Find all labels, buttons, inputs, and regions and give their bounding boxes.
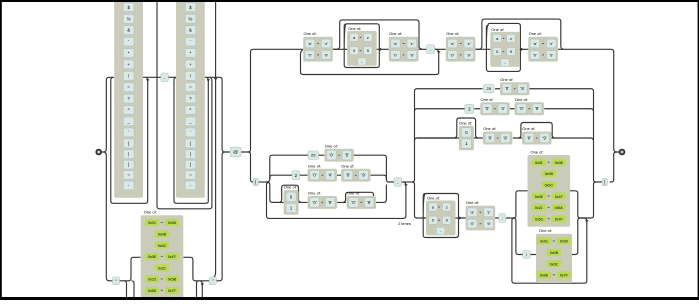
svg-text:.: . bbox=[397, 180, 398, 186]
svg-text:‘0’: ‘0’ bbox=[488, 135, 492, 140]
domain charset g5 a-z 0-9 dash bbox=[490, 27, 520, 67]
svg-text:‘0’: ‘0’ bbox=[470, 221, 474, 226]
wire at-sign to domain fork upper bbox=[241, 49, 303, 152]
wire local-part fork upper (to dot-atom charset) bbox=[103, 77, 114, 152]
svg-text:‘5’: ‘5’ bbox=[345, 153, 349, 158]
svg-text:One of:: One of: bbox=[481, 97, 494, 102]
svg-text:0x0C: 0x0C bbox=[158, 244, 167, 248]
svg-text:One of:: One of: bbox=[325, 143, 338, 148]
svg-text:.: . bbox=[164, 75, 165, 81]
svg-text:0x5D: 0x5D bbox=[148, 289, 157, 293]
wire col2 plus-loop bbox=[174, 77, 208, 203]
svg-text:_: _ bbox=[188, 119, 192, 124]
svg-text:‘4’: ‘4’ bbox=[328, 173, 332, 178]
wire last-octet b3 skip2 arc bbox=[519, 123, 555, 139]
svg-text:‘a’: ‘a’ bbox=[533, 41, 537, 46]
svg-text:]: ] bbox=[604, 180, 605, 185]
svg-text:0x0B: 0x0B bbox=[158, 233, 167, 237]
svg-text:0x7F: 0x7F bbox=[560, 274, 569, 278]
svg-text:0x0C: 0x0C bbox=[545, 184, 554, 188]
wire octet1 b3 internal and merge bbox=[272, 185, 386, 203]
svg-text:%: % bbox=[189, 16, 193, 21]
svg-text:‘z’: ‘z’ bbox=[467, 41, 471, 46]
svg-text:2 times: 2 times bbox=[398, 221, 411, 226]
wire last-octet b2 internals merge bbox=[474, 109, 593, 112]
svg-text:25: 25 bbox=[311, 153, 316, 158]
svg-text:‘9’: ‘9’ bbox=[535, 106, 539, 111]
svg-text:z: z bbox=[510, 36, 512, 41]
svg-text:One of:: One of: bbox=[531, 149, 544, 154]
svg-text:0x5B: 0x5B bbox=[168, 278, 177, 282]
svg-text:‘0’: ‘0’ bbox=[329, 153, 333, 158]
svg-text:|: | bbox=[190, 152, 191, 157]
wire g5 to g6 bbox=[475, 48, 529, 50]
octet1 b2 range 0-9 bbox=[341, 163, 371, 181]
octet2 b2 range 0-4 bbox=[480, 97, 510, 115]
wire b4 backslash branch merge bbox=[530, 218, 580, 255]
svg-text:One of:: One of: bbox=[144, 210, 157, 215]
domain charset g2 a-z 0-9 dash bbox=[347, 26, 377, 66]
wire dot-repeat star-loop bbox=[157, 0, 212, 209]
svg-text:‘z’: ‘z’ bbox=[487, 210, 491, 215]
svg-text:One of:: One of: bbox=[483, 126, 496, 131]
octet2 b1 range 0-5 bbox=[500, 77, 530, 95]
svg-text:0x0E: 0x0E bbox=[535, 195, 544, 199]
svg-text:0x01: 0x01 bbox=[540, 240, 548, 244]
svg-text:0x7F: 0x7F bbox=[555, 217, 564, 221]
svg-text:‘0’: ‘0’ bbox=[312, 200, 316, 205]
octet2 b3 range 0-9 a bbox=[483, 126, 513, 144]
charset column 2 (atext characters) bbox=[176, 0, 205, 198]
b4 hex charset 1 bbox=[528, 149, 571, 226]
wire quoted backslash branch down (cropped) bbox=[124, 281, 127, 300]
svg-text:‘9’: ‘9’ bbox=[361, 173, 365, 178]
wire last-octet fork to b4 bbox=[412, 182, 426, 218]
wire quoted star-loop down (cropped) bbox=[200, 281, 202, 300]
svg-text:0x08: 0x08 bbox=[555, 161, 563, 165]
svg-text:_: _ bbox=[126, 119, 130, 124]
wire octet1 b3 skip2 arc bbox=[343, 192, 376, 202]
wire quoted-string to merge bracket bbox=[216, 152, 225, 281]
svg-text:0x5A: 0x5A bbox=[555, 206, 564, 210]
svg-text:‘0’: ‘0’ bbox=[527, 135, 531, 140]
b4 charset g8 a-z 0-9 bbox=[466, 200, 496, 231]
wire close-bracket to end merge bbox=[610, 152, 617, 182]
b4 hex charset 2 bbox=[536, 228, 572, 283]
wire quoted backslash merge up (cropped) bbox=[197, 281, 200, 300]
svg-text:‘9’: ‘9’ bbox=[549, 52, 553, 57]
svg-text:0x0E: 0x0E bbox=[540, 274, 549, 278]
svg-text:%: % bbox=[127, 16, 131, 21]
start terminal bbox=[96, 150, 101, 155]
wire last-octet fork vertical bbox=[412, 89, 483, 182]
svg-text:0x0B: 0x0B bbox=[550, 251, 559, 255]
wire octet1 fork to b2 bbox=[270, 175, 292, 179]
wire bracket-open to octet fork bbox=[258, 181, 266, 183]
wire b4 plus-loop bbox=[512, 218, 587, 283]
wire local-part fork lower (to quoted string) bbox=[103, 152, 112, 281]
wire optional-group skip arc (domain second) bbox=[475, 19, 563, 49]
svg-text:‘0’: ‘0’ bbox=[308, 52, 312, 57]
svg-text:‘a’: ‘a’ bbox=[470, 210, 474, 215]
svg-text:0x53: 0x53 bbox=[535, 217, 543, 221]
octet1 b1 range 0-5 bbox=[324, 143, 354, 161]
octet1 b2 range 0-4 bbox=[308, 163, 338, 181]
svg-text:@: @ bbox=[233, 150, 238, 155]
svg-text:0x0E: 0x0E bbox=[148, 255, 157, 259]
wire domain plus-loop return bbox=[301, 49, 439, 74]
svg-text:‘z’: ‘z’ bbox=[549, 41, 553, 46]
svg-text:One of:: One of: bbox=[304, 31, 317, 36]
domain charset g1 a-z 0-9 bbox=[303, 31, 333, 62]
wire octet1 b3 skip1 arc bbox=[279, 185, 300, 202]
wire last-octet fork to b2 bbox=[415, 109, 465, 111]
wire domain fork lower to bracket-open bbox=[248, 152, 253, 182]
wire b4 merge to close-bracket bbox=[580, 182, 596, 218]
svg-text:One of:: One of: bbox=[284, 185, 297, 190]
svg-text:One of:: One of: bbox=[459, 120, 472, 125]
svg-text:^: ^ bbox=[128, 108, 130, 113]
svg-text:‘0’: ‘0’ bbox=[312, 173, 316, 178]
svg-text:‘0’: ‘0’ bbox=[485, 106, 489, 111]
wire b4 g7 star loop rect bbox=[423, 194, 458, 238]
svg-text:‘a’: ‘a’ bbox=[393, 41, 397, 46]
svg-text:0x1F: 0x1F bbox=[555, 195, 564, 199]
svg-text:One of:: One of: bbox=[522, 126, 535, 131]
svg-text:0x01: 0x01 bbox=[148, 221, 156, 225]
charset column 1 (atext characters) bbox=[114, 0, 143, 198]
svg-text:One of:: One of: bbox=[539, 228, 552, 233]
svg-text:0x08: 0x08 bbox=[168, 221, 176, 225]
svg-text:One of:: One of: bbox=[446, 31, 459, 36]
wire start to fork bbox=[102, 151, 104, 153]
wire g6 to end-merge down bbox=[558, 49, 619, 152]
svg-text:0x21: 0x21 bbox=[158, 266, 166, 270]
svg-text:0x0B: 0x0B bbox=[545, 172, 554, 176]
svg-text:z: z bbox=[446, 204, 448, 209]
octet1 b3 range 0-9 a bbox=[308, 191, 338, 209]
wire dot-atom to merge bracket bbox=[205, 77, 230, 152]
svg-text:0x1F: 0x1F bbox=[168, 255, 177, 259]
svg-text:‘0’: ‘0’ bbox=[393, 52, 397, 57]
wire g5 star loop rect bbox=[486, 23, 520, 71]
octet1 b3 range 0-9 b bbox=[347, 191, 377, 209]
wire last-octet b1 internals merge bbox=[495, 89, 602, 182]
wire optional-group skip arc (domain first) bbox=[333, 20, 423, 49]
octet2 b2 range 0-9 bbox=[515, 97, 545, 115]
svg-text:‘9’: ‘9’ bbox=[410, 52, 414, 57]
wire b4 alternation backslash branch bbox=[513, 218, 522, 255]
svg-text:0x23: 0x23 bbox=[148, 278, 156, 282]
wire octet1 fork vertical bbox=[266, 155, 309, 182]
octet1 b3 charset 0 1 bbox=[284, 185, 299, 215]
svg-text:‘9’: ‘9’ bbox=[467, 52, 471, 57]
domain charset g3 a-z 0-9 bbox=[389, 31, 419, 62]
domain charset g4 a-z 0-9 bbox=[446, 31, 476, 62]
wire last-octet b3 internals merge bbox=[417, 138, 594, 141]
wire b4 g7 to colon bbox=[456, 217, 514, 219]
svg-text:‘9’: ‘9’ bbox=[503, 135, 507, 140]
wire octet1 b2 internal and merge bbox=[300, 175, 387, 179]
svg-text:‘5’: ‘5’ bbox=[520, 86, 524, 91]
wire octet1 fork to b3 bbox=[266, 182, 279, 202]
svg-text:&: & bbox=[189, 28, 192, 33]
svg-text:|: | bbox=[128, 152, 129, 157]
svg-text:‘a’: ‘a’ bbox=[450, 41, 454, 46]
svg-text:One of:: One of: bbox=[515, 97, 528, 102]
svg-text:z: z bbox=[367, 35, 369, 40]
wire b4 alternation charset1 branch bbox=[513, 191, 527, 218]
wire dot to g4 bbox=[435, 48, 446, 50]
wire last-octet b3 skip1 arc bbox=[454, 118, 478, 138]
svg-text:25: 25 bbox=[487, 86, 492, 91]
svg-text:One of:: One of: bbox=[500, 77, 513, 82]
wire ip-dot to last-octet fork bbox=[401, 181, 412, 183]
svg-text:One of:: One of: bbox=[341, 163, 354, 168]
svg-text:One of:: One of: bbox=[427, 196, 440, 201]
svg-text:‘z’: ‘z’ bbox=[324, 41, 328, 46]
svg-text:‘9’: ‘9’ bbox=[324, 52, 328, 57]
svg-text:&: & bbox=[127, 28, 130, 33]
wire b4 charset1 branch merge bbox=[570, 191, 580, 218]
svg-text:One of:: One of: bbox=[466, 200, 479, 205]
svg-text:0x01: 0x01 bbox=[535, 161, 543, 165]
wire quote-left to alternation bbox=[120, 280, 125, 282]
wire quoted skip tall vertical (cropped top) bbox=[212, 0, 215, 278]
wire quoted second split down (cropped) bbox=[132, 281, 135, 300]
svg-text:‘0’: ‘0’ bbox=[346, 173, 350, 178]
svg-text:One of:: One of: bbox=[308, 191, 321, 196]
svg-text:0x21: 0x21 bbox=[535, 206, 543, 210]
wire col1 plus-loop bbox=[111, 77, 148, 203]
wire main line through dot area col1-col2 bbox=[143, 76, 176, 78]
svg-text:.: . bbox=[430, 47, 431, 53]
svg-text:‘0’: ‘0’ bbox=[519, 106, 523, 111]
svg-text:One of:: One of: bbox=[308, 163, 321, 168]
svg-text:0x0C: 0x0C bbox=[550, 262, 559, 266]
svg-text:^: ^ bbox=[189, 108, 191, 113]
wire octet1 b1 internal and merge bbox=[318, 154, 325, 156]
svg-text:‘0’: ‘0’ bbox=[533, 52, 537, 57]
svg-text:‘4’: ‘4’ bbox=[501, 106, 505, 111]
svg-text:One of:: One of: bbox=[348, 26, 361, 31]
svg-text:‘a’: ‘a’ bbox=[308, 41, 312, 46]
wire g2 star loop rect bbox=[344, 24, 379, 68]
octet2 b3 charset 0 1 bbox=[459, 120, 474, 150]
svg-text:0x09: 0x09 bbox=[560, 240, 568, 244]
svg-text:One of:: One of: bbox=[389, 31, 402, 36]
svg-text:‘0’: ‘0’ bbox=[351, 200, 355, 205]
svg-text:One of:: One of: bbox=[347, 191, 360, 196]
wire last-octet fork to b3 bbox=[415, 138, 457, 141]
svg-text:‘9’: ‘9’ bbox=[487, 221, 491, 226]
wire domain-name main line g1 to dot bbox=[333, 48, 427, 50]
svg-text:‘9’: ‘9’ bbox=[542, 135, 546, 140]
octet2 b3 range 0-9 b bbox=[522, 126, 552, 144]
wire 3-times loop bbox=[267, 182, 406, 218]
svg-text:One of:: One of: bbox=[491, 27, 504, 32]
svg-text:‘9’: ‘9’ bbox=[328, 200, 332, 205]
svg-text:‘z’: ‘z’ bbox=[410, 41, 414, 46]
svg-text:One of:: One of: bbox=[529, 31, 542, 36]
svg-text:0x7F: 0x7F bbox=[168, 289, 177, 293]
b4 charset g7 a-z 0-9 dash bbox=[426, 196, 456, 236]
domain charset g6 a-z 0-9 bbox=[528, 31, 558, 62]
svg-text:‘0’: ‘0’ bbox=[505, 86, 509, 91]
svg-text::: : bbox=[502, 216, 503, 221]
wire quoted charset branch up bbox=[124, 257, 141, 281]
svg-text:‘0’: ‘0’ bbox=[450, 52, 454, 57]
end terminal bbox=[620, 150, 625, 155]
svg-text:‘9’: ‘9’ bbox=[367, 200, 371, 205]
wire quoted charset merge down bbox=[183, 257, 209, 281]
